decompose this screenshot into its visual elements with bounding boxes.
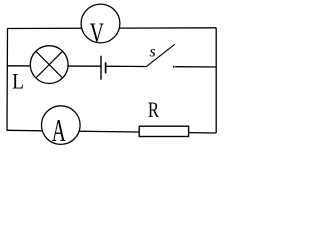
svg-text:A: A bbox=[52, 112, 66, 148]
svg-text:L: L bbox=[12, 70, 24, 93]
svg-text:s: s bbox=[149, 44, 155, 61]
svg-text:V: V bbox=[90, 18, 104, 50]
svg-text:R: R bbox=[148, 99, 159, 123]
